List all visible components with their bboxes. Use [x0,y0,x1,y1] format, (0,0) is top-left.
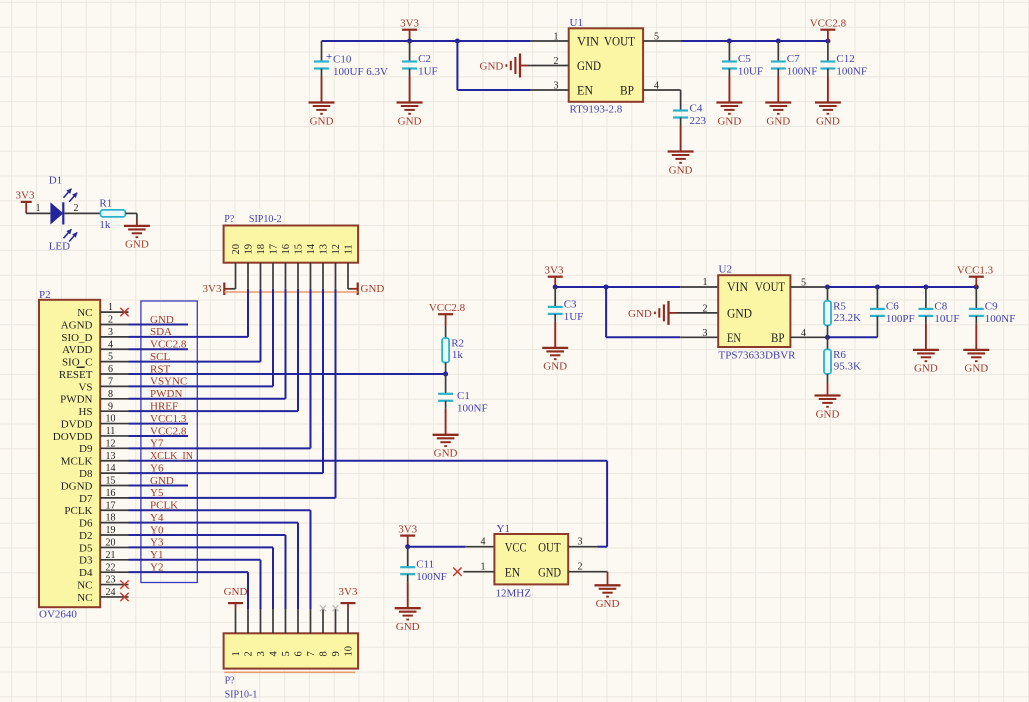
wire net Y3 (P2 pin 20) [129,537,274,549]
junction C12 / VCC2.8 [825,39,830,44]
wire net PWDN (P2 pin 8) [129,388,286,400]
junction C7 [776,39,781,44]
svg-text:BP: BP [620,84,634,98]
P2 pin 9 (HS) [78,401,128,418]
ground GND (C11) [395,574,421,633]
svg-text:R1: R1 [99,197,112,209]
resistor R2 1k [442,337,464,362]
svg-text:VIN: VIN [727,280,748,294]
svg-text:GND: GND [816,408,840,420]
power port VCC2.8 (top right) [810,18,847,42]
svg-text:1UF: 1UF [564,311,584,323]
connector SIP10-2 [224,214,359,263]
svg-text:Y1: Y1 [497,523,510,535]
ground GND (C1) [433,401,459,460]
junction 3V3 / C3 [553,285,558,290]
wire SIP10-1 pin 4 to net row [272,547,274,609]
crystal oscillator Y1 12MHZ [494,523,568,600]
svg-text:Y5: Y5 [150,487,164,499]
junction R5 [825,285,830,290]
svg-text:7: 7 [306,651,317,656]
svg-text:19: 19 [244,244,255,255]
wire R2 to junction [445,363,447,375]
wire EN branch to U2 pin3 [606,287,718,337]
capacitor C11 100NF [400,547,447,584]
svg-text:11: 11 [106,426,116,437]
svg-text:C1: C1 [457,390,470,402]
SIP10-2 pin 13 [319,244,330,289]
svg-text:GND: GND [480,61,504,73]
svg-text:17: 17 [269,244,280,255]
svg-text:C12: C12 [836,53,854,65]
net wire group box [141,301,197,583]
svg-text:R5: R5 [833,300,846,312]
svg-text:GND: GND [538,565,561,579]
svg-text:RT9193-2.8: RT9193-2.8 [570,104,623,116]
svg-text:95.3K: 95.3K [834,360,861,372]
U2 pin 5 stub [790,277,828,288]
wire R1 to ground [125,213,136,226]
svg-text:D6: D6 [79,518,93,530]
svg-text:HS: HS [78,406,92,418]
SIP10-1 pin 7 [306,609,317,657]
svg-text:6: 6 [294,651,305,656]
svg-text:1: 1 [703,277,708,288]
svg-text:9: 9 [331,651,342,656]
orange directive line (SIP10-2) [224,291,357,293]
ground GND (R6) [815,396,841,421]
svg-text:GND: GND [150,314,174,326]
svg-text:VCC2.8: VCC2.8 [150,425,187,437]
wire net RST (P2 pin 6) [129,363,446,375]
svg-text:100NF: 100NF [787,66,818,78]
svg-text:13: 13 [319,244,330,255]
svg-text:4: 4 [481,536,486,547]
resistor R1 1k [99,197,125,231]
wire SIP10-2 pin 16 to net row [285,289,287,399]
SIP10-2 pin 18 [256,244,267,289]
wire net Y7 (P2 pin 12) [129,438,311,450]
svg-text:GND: GND [577,59,601,73]
junction EN branch (U2) [604,285,609,290]
svg-text:3V3: 3V3 [545,265,564,277]
svg-text:1: 1 [108,302,113,313]
capacitor C10 100UF 6.3V [314,41,388,78]
SIP10-1 pin 2 [244,609,255,657]
P2 pin 23 (NC) [77,575,128,592]
svg-text:GND: GND [224,586,248,598]
svg-text:PCLK: PCLK [64,505,92,517]
wire U1 BP to C4 [680,90,682,111]
svg-text:C4: C4 [690,102,703,114]
wire SIP10-1 pin 5 to net row [285,535,287,609]
svg-text:100UF 6.3V: 100UF 6.3V [333,66,388,78]
svg-text:100NF: 100NF [985,313,1016,325]
svg-text:P?: P? [225,675,236,686]
ground GND (C7) [765,69,791,128]
svg-text:EN: EN [505,565,521,579]
Y1 pin 2 stub (GND) [568,561,607,572]
wire SIP10-1 pin 7 to net row [310,510,312,609]
svg-text:20: 20 [231,244,242,255]
svg-text:GND: GND [125,239,149,251]
P2 pin 19 (D2) [79,525,128,542]
wire net Y5 (P2 pin 16) [129,487,336,499]
svg-text:C9: C9 [985,300,998,312]
svg-text:3: 3 [256,651,267,656]
svg-text:SIP10-2: SIP10-2 [249,214,282,225]
SIP10-2 pin 16 [281,244,292,289]
wire VOUT rail VCC2.8 [681,40,828,42]
wire net PCLK (P2 pin 17) [129,500,311,512]
svg-text:Y0: Y0 [150,524,164,536]
svg-text:3: 3 [578,536,583,547]
svg-text:15: 15 [106,476,116,487]
wire net Y4 (P2 pin 18) [129,512,299,524]
wire net VCC1.3 (P2 pin 10) [129,413,189,425]
svg-text:23: 23 [106,575,116,586]
svg-text:LED: LED [49,241,70,253]
wire SIP10-1 pin 3 to net row [260,560,262,609]
P2 pin 18 (D6) [79,513,128,530]
svg-text:18: 18 [256,244,267,255]
resistor R5 23.2K [824,287,861,337]
svg-text:1k: 1k [452,349,464,361]
P2 pin 13 (MCLK) [61,451,129,468]
svg-text:11: 11 [344,244,355,254]
wire net Y6 (P2 pin 14) [129,462,324,474]
svg-text:19: 19 [106,525,116,536]
SIP10-1 pin 4 [269,609,280,657]
svg-text:VCC: VCC [505,540,527,554]
dangling mark SIP10-1 pin8 [320,605,326,611]
svg-text:GND: GND [816,115,840,127]
svg-text:100NF: 100NF [457,403,488,415]
P2 pin 16 (D7) [79,488,128,505]
wire 3V3 rail [322,40,531,42]
wire net SCL (P2 pin 5) [129,351,261,363]
svg-text:GND: GND [727,307,752,321]
svg-text:10UF: 10UF [934,313,959,325]
P2 pin 11 (DOVDD) [53,426,129,443]
wire VOUT rail VCC1.3 [828,286,976,288]
junction EN branch [455,39,460,44]
P2 pin 5 (SIO_C) [62,352,129,369]
svg-text:3V3: 3V3 [398,523,417,535]
wire junction to C1 [445,374,447,394]
svg-text:R2: R2 [451,337,464,349]
svg-text:TPS73633DBVR: TPS73633DBVR [719,350,797,362]
capacitor C3 1UF [548,287,584,323]
svg-text:DGND: DGND [61,480,93,492]
SIP10-1 pin 3 [256,609,267,657]
svg-text:4: 4 [801,328,806,339]
svg-text:4: 4 [654,80,659,91]
svg-text:1: 1 [36,203,41,214]
wire EN branch to U1 pin3 [457,41,530,90]
svg-text:GND: GND [628,308,652,320]
svg-text:VCC1.3: VCC1.3 [957,265,994,277]
svg-text:AVDD: AVDD [62,344,92,356]
svg-text:PWDN: PWDN [150,388,182,400]
svg-text:U2: U2 [719,264,732,276]
svg-text:3V3: 3V3 [16,190,35,202]
svg-text:GND: GND [766,115,790,127]
svg-text:1: 1 [481,561,486,572]
P2 pin 17 (PCLK) [64,500,128,517]
svg-text:DOVDD: DOVDD [53,431,93,443]
capacitor C8 10UF [918,287,959,325]
svg-text:GND: GND [396,621,420,633]
svg-text:1: 1 [231,651,242,656]
ground GND (C4) [668,118,694,177]
U1 pin 4 stub [643,80,681,91]
svg-text:7: 7 [108,377,113,388]
SIP10-2 pin 17 [269,244,280,289]
svg-text:OUT: OUT [538,540,561,554]
svg-text:GND: GND [596,598,620,610]
connector P2 (OV2640) [39,289,100,621]
U2 pin 3 number [703,328,708,339]
svg-text:OV2640: OV2640 [39,609,77,621]
svg-text:20: 20 [106,538,116,549]
wire SIP10-1 pin 2 to net row [247,572,249,609]
junction R5/R6 on BP line [825,335,830,340]
wire net XCLK_IN (P2 pin 13) [129,450,608,462]
svg-text:100PF: 100PF [886,313,915,325]
svg-text:D4: D4 [79,567,93,579]
P2 pin 10 (DVDD) [61,414,129,431]
capacitor C7 100NF [771,41,818,78]
wire SIP10-2 pin 18 to net row [260,289,262,362]
svg-text:2: 2 [108,315,113,326]
svg-text:C7: C7 [787,53,800,65]
P2 pin 7 (VS) [78,377,128,394]
wire net VCC2.8 (P2 pin 11) [129,425,189,437]
wire net GND (P2 pin 2) [129,314,189,326]
svg-text:9: 9 [108,401,113,412]
svg-text:NC: NC [77,592,92,604]
svg-text:GND: GND [543,361,567,373]
svg-text:VIN: VIN [577,35,599,49]
svg-text:RESET: RESET [59,369,93,381]
svg-text:17: 17 [106,500,116,511]
svg-text:22: 22 [106,562,116,573]
wire OUT up to XCLK_IN net [597,461,607,547]
svg-text:VSYNC: VSYNC [150,376,187,388]
capacitor C6 100PF [870,287,915,337]
U2 pin 2 number [703,304,708,315]
svg-text:21: 21 [106,550,116,561]
svg-text:C11: C11 [416,559,434,571]
svg-text:AGND: AGND [61,319,93,331]
svg-text:16: 16 [106,488,116,499]
svg-text:D2: D2 [79,530,92,542]
SIP10-1 pin 10 [344,609,355,657]
capacitor C2 1UF [402,41,438,78]
svg-text:VCC1.3: VCC1.3 [150,413,187,425]
svg-text:23.2K: 23.2K [834,312,861,324]
svg-text:GND: GND [150,475,174,487]
ground power port (U1 pin2 GND) [480,54,531,78]
power port GND (SIP10-1 pin1) [224,586,248,609]
svg-text:VOUT: VOUT [755,280,785,294]
svg-text:C10: C10 [333,53,352,65]
svg-text:3V3: 3V3 [400,18,419,30]
svg-text:14: 14 [306,243,317,254]
connector SIP10-1 [224,633,359,700]
svg-text:2: 2 [578,561,583,572]
svg-text:RST: RST [150,363,170,375]
wire net Y2 (P2 pin 22) [129,561,249,573]
svg-text:C2: C2 [418,53,431,65]
SIP10-1 pin 6 [294,609,305,657]
wire SIP10-2 pin 14 to net row [310,289,312,449]
ground GND (C3) [542,314,568,373]
svg-text:100NF: 100NF [416,571,447,583]
svg-text:GND: GND [717,115,741,127]
svg-text:13: 13 [106,451,116,462]
SIP10-1 pin 1 [231,609,242,657]
wire 3V3 to LED anode [26,203,50,214]
svg-text:VS: VS [78,381,92,393]
P2 pin 1 (NC) [77,302,128,319]
svg-text:3: 3 [108,327,113,338]
power port VCC2.8 (R2) [429,302,466,338]
SIP10-1 pin 5 [281,609,292,657]
P2 pin 4 (AVDD) [62,339,128,356]
no-connect X on P2 pin 23 [120,580,128,588]
svg-text:10: 10 [344,646,355,657]
capacitor C5 10UF [722,41,763,78]
wire SIP10-2 pin 17 to net row [272,289,274,387]
svg-text:GND: GND [398,115,422,127]
wire SIP10-2 pin 13 to net row [322,289,324,473]
svg-text:D9: D9 [79,443,93,455]
P2 pin 21 (D3) [79,550,128,567]
ground GND (C12) [815,69,841,128]
svg-text:D7: D7 [79,493,93,505]
ground GND (C9) [963,316,989,375]
ground power port (U2 pin2 GND) [628,301,718,325]
P2 pin 24 (NC) [77,587,128,604]
svg-text:12MHZ: 12MHZ [496,588,532,600]
wire 3V3 to U2 VIN [555,286,718,288]
dangling mark SIP10-1 pin9 [333,605,339,611]
svg-text:1: 1 [554,31,559,42]
svg-text:GND: GND [361,283,385,295]
wire net VSYNC (P2 pin 7) [129,376,274,388]
U1 pin 3 stub [531,80,569,91]
wire SIP10-2 pin 15 to net row [297,289,299,411]
svg-text:100NF: 100NF [836,66,867,78]
svg-text:12: 12 [106,438,116,449]
wire net HREF (P2 pin 9) [129,400,299,412]
svg-text:EN: EN [577,84,593,98]
SIP10-2 pin 15 [294,244,305,289]
svg-text:DVDD: DVDD [61,418,93,430]
power port VCC1.3 [957,265,994,288]
U2 pin 1 number [703,277,708,288]
svg-text:Y3: Y3 [150,537,164,549]
wire LED cathode to R1 [63,212,100,214]
U1 pin 5 stub [643,31,681,42]
wire net VCC2.8 (P2 pin 4) [129,339,189,351]
ground GND (C10) [309,69,335,128]
svg-text:XCLK_IN: XCLK_IN [150,450,193,462]
svg-text:P?: P? [224,214,235,225]
capacitor C9 100NF [969,287,1016,325]
svg-text:D8: D8 [79,468,93,480]
IC U1 RT9193-2.8 [569,17,643,116]
svg-text:2: 2 [703,304,708,315]
svg-text:D1: D1 [49,175,62,187]
SIP10-2 pin 14 [306,243,317,289]
orange directive line (SIP10-1) [224,671,355,673]
svg-text:C8: C8 [934,300,947,312]
svg-text:PCLK: PCLK [150,500,178,512]
svg-text:12: 12 [331,244,342,255]
svg-text:2: 2 [244,651,255,656]
svg-text:223: 223 [690,115,707,127]
P2 pin 12 (D9) [79,438,128,455]
svg-text:U1: U1 [570,17,583,29]
svg-text:NC: NC [77,307,92,319]
svg-text:C5: C5 [738,53,751,65]
svg-text:3: 3 [554,80,559,91]
svg-text:D3: D3 [79,555,93,567]
P2 pin 3 (SIO_D) [61,327,128,344]
SIP10-2 pin 19 [244,244,255,289]
svg-text:VOUT: VOUT [604,35,635,49]
svg-text:MCLK: MCLK [61,456,93,468]
svg-text:GND: GND [434,448,458,460]
svg-text:VCC2.8: VCC2.8 [429,302,466,314]
capacitor C1 100NF [438,390,487,415]
svg-text:GND: GND [310,115,334,127]
svg-text:3V3: 3V3 [339,586,358,598]
P2 pin 22 (D4) [79,562,128,579]
svg-text:1k: 1k [99,219,111,231]
U1 pin 1 stub [531,31,569,42]
svg-text:5: 5 [801,277,806,288]
svg-text:BP: BP [771,331,785,345]
svg-text:GND: GND [964,363,988,375]
Y1 pin 3 stub (OUT) [568,536,597,547]
power port 3V3 (input rail) [400,18,419,42]
Y1 pin 1 stub (EN, no connect) [463,561,494,572]
svg-text:C3: C3 [564,298,577,310]
svg-text:VCC2.8: VCC2.8 [150,339,187,351]
svg-text:8: 8 [319,651,330,656]
svg-text:SIP10-1: SIP10-1 [225,689,258,700]
junction RST / R2 / C1 [443,372,448,377]
SIP10-2 pin 20 [231,244,242,289]
SIP10-2 pin 12 [331,244,342,289]
svg-text:10: 10 [106,414,116,425]
no-connect X (Y1 EN) [453,568,461,576]
power port 3V3 (Y1) [398,523,417,546]
ground GND (R1) [124,226,150,251]
svg-text:3: 3 [703,328,708,339]
svg-text:C6: C6 [886,300,899,312]
wire Y1 GND down [607,572,609,586]
P2 pin 2 (AGND) [61,315,129,332]
power port 3V3 (SIP10-2 pin20) [203,283,236,296]
U1 pin 2 stub [531,56,569,67]
wire SIP10-1 pin 6 to net row [297,523,299,609]
U2 pin 4 stub [790,328,828,339]
